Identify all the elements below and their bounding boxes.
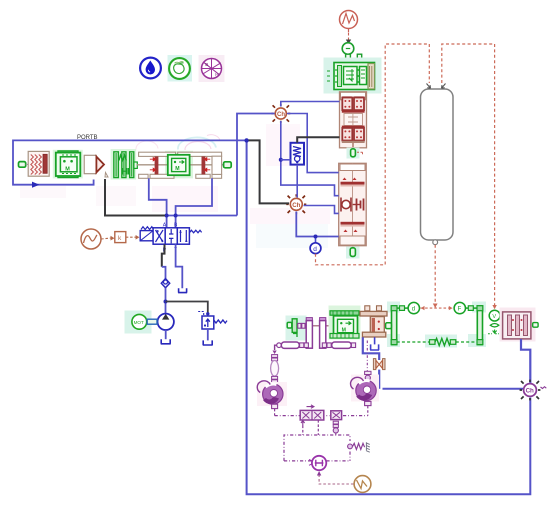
clutch plate 2 <box>320 318 326 349</box>
lever/amplifier triangle <box>96 157 108 177</box>
decorative arcs noise <box>136 135 220 150</box>
tank T4 (under piston) <box>370 337 379 350</box>
junction dot pump line <box>164 300 168 304</box>
svg-text:d: d <box>313 246 317 253</box>
svg-text:B: B <box>205 62 208 67</box>
wire pump to tank <box>165 330 167 339</box>
wire PORTB frame (blue) <box>13 140 247 187</box>
gas bottle/accumulator <box>421 89 454 245</box>
gauge/constant block <box>342 43 361 61</box>
torque node (purple block) <box>331 411 342 435</box>
gauge F (green) <box>454 302 465 313</box>
gauge V (green) <box>488 310 500 334</box>
clutch plates (green) <box>111 149 137 180</box>
svg-text:M: M <box>175 166 179 172</box>
wire cylinder portB down <box>176 178 212 215</box>
green coupling pill 1 <box>347 148 363 159</box>
motor MOT <box>125 311 152 334</box>
pressure cylinder (right purple) <box>500 308 539 342</box>
gyrator H <box>309 456 326 470</box>
wire P to pump (black jog) <box>162 244 165 267</box>
actuator cylinder assembly <box>137 151 227 179</box>
damper D1 (left) <box>277 342 309 348</box>
spring element in frame bottom <box>397 338 478 345</box>
wire accumulator top to stack (black) <box>297 137 339 143</box>
wire accumulator stub <box>281 159 291 161</box>
signal line bottle to V-gauge (red dash) <box>442 44 495 308</box>
mech bus (purple dash-dot) <box>275 415 368 417</box>
svg-text:V: V <box>492 314 496 320</box>
signal line bottle bottom to d/F (red dash) <box>434 245 436 308</box>
wire Ch2 bottom bus <box>296 212 338 237</box>
wire T to tank <box>176 244 183 288</box>
svg-text:M: M <box>65 167 70 173</box>
node Ch2 (chamber) <box>286 194 306 214</box>
wire Ch1 top to upper stack <box>281 102 340 107</box>
wire valve to check valve <box>162 267 166 279</box>
pump P1 <box>158 314 174 330</box>
brake piston (brown) <box>360 306 387 337</box>
svg-text:Ch: Ch <box>277 112 285 118</box>
tank T2 <box>161 339 171 344</box>
signal wire W1 to gauge <box>346 33 351 44</box>
wire Ch1 bottom down <box>281 121 339 196</box>
fluid properties icon <box>140 58 161 79</box>
wire relief to tank <box>207 329 209 340</box>
node Ch1 (chamber) <box>271 104 290 123</box>
clutch plate 1 <box>306 318 312 349</box>
shaft coupling <box>147 319 157 324</box>
mass block M1 <box>53 150 83 179</box>
rotary unit (left blob) <box>257 381 287 406</box>
signal wire to valve <box>126 235 140 240</box>
damper D2 (center) <box>322 342 355 348</box>
clutch mechanism background <box>286 316 307 341</box>
svg-text:d: d <box>412 307 415 313</box>
tank T3 <box>203 340 213 345</box>
shaft dash piston to right blob <box>366 341 368 372</box>
plate connectors <box>298 323 301 328</box>
wire valve port stubs <box>166 216 168 228</box>
sensor V (tan circle) <box>354 476 371 493</box>
mass block M3 <box>329 306 361 340</box>
svg-text:Ch: Ch <box>526 388 534 395</box>
port stub left (green) <box>19 162 29 168</box>
junction dot sensor d <box>314 235 318 239</box>
mech loop (purple dash) <box>284 420 350 461</box>
signal dashes between d and F <box>421 306 453 310</box>
signal source W2 (sine) <box>81 229 101 249</box>
wire piston to orifice (blue elbow) <box>363 337 379 360</box>
wire to relief valve (dark) <box>166 302 208 313</box>
global parameters icon <box>168 55 193 82</box>
piston housing <box>84 155 96 173</box>
green coupling pill 2 <box>346 247 360 259</box>
wire Ch2 right to stack mid port <box>304 206 339 214</box>
sensor d (blue) <box>310 237 321 254</box>
wire Ch1 right to lower stack top port <box>287 114 339 173</box>
link below left blob <box>272 404 278 415</box>
signal line d-sensor to bottle (red dash) <box>316 44 430 265</box>
orifice (brown bowtie) <box>373 359 385 370</box>
shaft dash left column <box>266 345 268 354</box>
mass block M2 <box>168 155 190 175</box>
wire check valve to pump <box>165 288 167 314</box>
wire PORTB to Ch2 (black) <box>249 140 290 203</box>
tank T1 <box>178 288 187 292</box>
svg-text:H: H <box>215 72 218 77</box>
spring-damper cartridge K1 <box>28 151 49 176</box>
wire lever to bus (black) <box>105 179 165 216</box>
signal wire to gain <box>101 236 114 241</box>
relief valve RV1 <box>198 312 227 330</box>
wire Ch1 to bus (blue vertical x237) <box>237 114 275 216</box>
gauge d (green) <box>408 302 419 313</box>
gain block k <box>115 232 126 243</box>
signal source W1 (top) <box>340 11 358 33</box>
green servovalve U1 <box>324 58 382 94</box>
spindle link (left column) <box>271 345 279 382</box>
directional valve V1 (4/3 proportional) <box>140 223 201 254</box>
frame left stub <box>386 323 392 329</box>
arrows into bottle top <box>427 84 431 89</box>
axes/magnet icon <box>199 55 225 82</box>
signal wire V to H <box>317 471 354 484</box>
rotary unit (right blob) <box>351 371 379 415</box>
wire return from orifice (blue) <box>383 388 524 390</box>
wire cylinder portA down <box>149 178 167 215</box>
svg-text:M: M <box>342 327 346 333</box>
wire accumulator bottom to Ch2 <box>296 165 298 198</box>
svg-text:Ch: Ch <box>292 202 300 209</box>
wire long return (blue) <box>247 140 531 494</box>
rod line <box>297 325 336 327</box>
wire bus to valve (blue) <box>167 215 237 217</box>
green anchor plate <box>287 319 297 337</box>
green measurement frame <box>387 302 486 348</box>
check valve CV1 <box>161 279 169 288</box>
port stub mid (green) <box>134 162 137 168</box>
junction dots on bus <box>165 214 169 218</box>
gearbox valve (purple) <box>300 405 324 426</box>
gas accumulator block <box>291 143 305 165</box>
port stub right (green) <box>222 162 232 168</box>
wire orifice down to return <box>378 370 380 389</box>
wire cylinder to Ch3 (blue) <box>521 339 530 383</box>
node Ch3 (purple chamber) <box>520 380 547 401</box>
faint compression noise patches <box>20 124 330 248</box>
upper spool valve stack <box>340 92 367 148</box>
svg-text:F: F <box>458 307 462 313</box>
spring-ground (right of loop) <box>348 442 370 452</box>
svg-text:MOT: MOT <box>134 320 144 325</box>
lower spool valve stack <box>339 163 367 249</box>
junction dot accumulator stub <box>279 158 283 162</box>
junction dot frame/return <box>244 138 248 142</box>
